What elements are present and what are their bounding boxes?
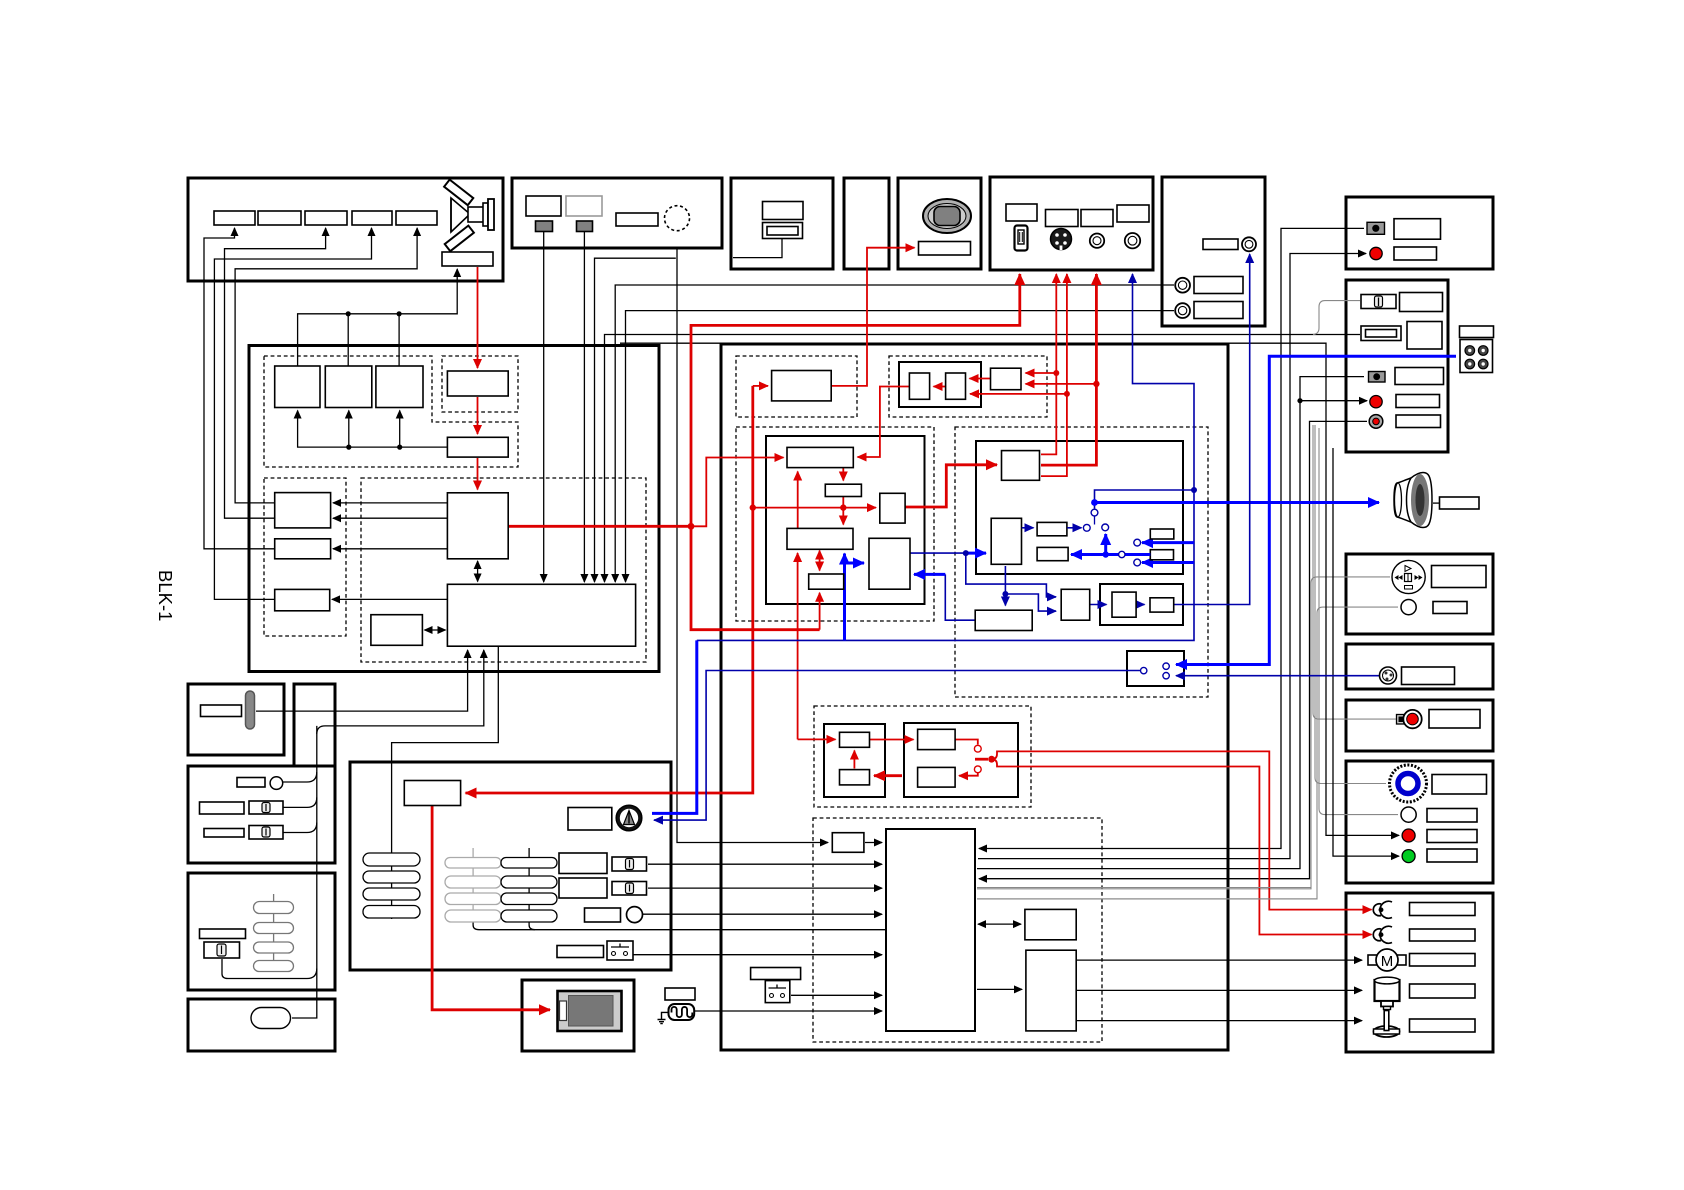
svg-text:BLK-1: BLK-1: [155, 570, 176, 621]
svg-text:M: M: [1381, 953, 1394, 970]
